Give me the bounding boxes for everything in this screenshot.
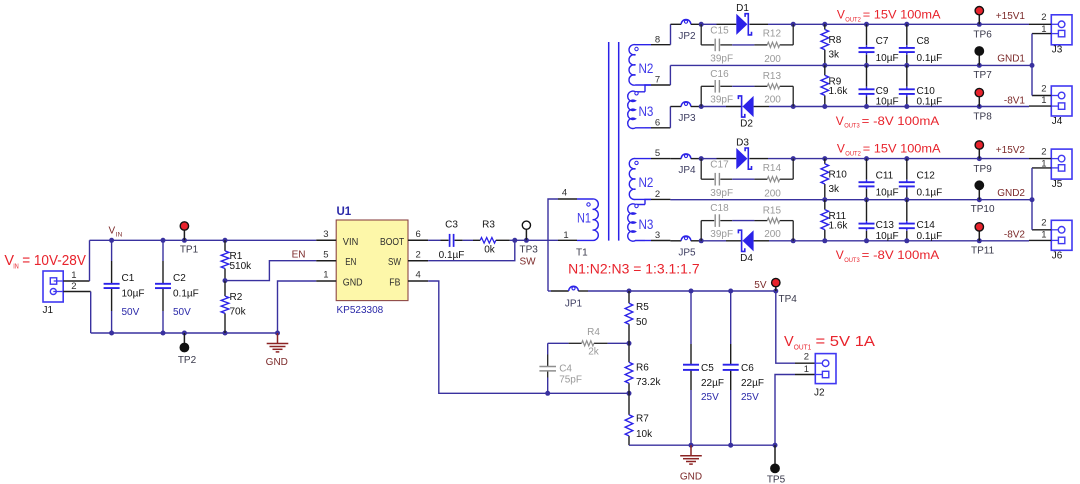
J6 pin 1 lead bbox=[1029, 239, 1051, 241]
svg-text:J6: J6 bbox=[1052, 250, 1063, 261]
junction TP8 bbox=[977, 104, 982, 109]
junction C6 top bbox=[728, 289, 733, 294]
test point TP11 bbox=[978, 231, 980, 241]
svg-text:0.1µF: 0.1µF bbox=[917, 188, 943, 199]
svg-text:OUT3: OUT3 bbox=[844, 257, 860, 264]
svg-text:R13: R13 bbox=[763, 71, 782, 82]
capacitor C6 leads bbox=[730, 291, 732, 344]
junction TP7 bbox=[977, 63, 982, 68]
junction C9 bottom bbox=[864, 104, 869, 109]
svg-text:OUT2: OUT2 bbox=[845, 16, 861, 23]
svg-text:2k: 2k bbox=[588, 346, 600, 357]
junction FB divider bbox=[627, 391, 632, 396]
junction TP9 bbox=[977, 156, 982, 161]
junction snubber left bottom bbox=[699, 104, 704, 109]
capacitor C11 leads bbox=[866, 159, 868, 180]
svg-text:50: 50 bbox=[636, 317, 648, 328]
svg-text:R2: R2 bbox=[230, 292, 243, 303]
svg-text:1: 1 bbox=[323, 270, 328, 281]
svg-text:FB: FB bbox=[389, 276, 400, 288]
svg-text:8: 8 bbox=[655, 34, 660, 45]
svg-text:2: 2 bbox=[804, 352, 809, 363]
svg-text:+15V1: +15V1 bbox=[996, 11, 1026, 22]
T1 winding N2 (bottom) bbox=[629, 159, 651, 200]
svg-text:V: V bbox=[836, 114, 844, 128]
svg-text:GND1: GND1 bbox=[997, 54, 1025, 65]
capacitor C12 leads bbox=[906, 159, 908, 180]
junction C9 mid bbox=[864, 63, 869, 68]
junction TP11 bbox=[977, 238, 982, 243]
junction R9 mid bbox=[822, 63, 827, 68]
capacitor C7 leads bbox=[866, 24, 868, 45]
diode D4 bbox=[743, 230, 754, 251]
J5 pin 1 lead bbox=[1032, 167, 1051, 169]
resistor R5 leads bbox=[628, 291, 630, 303]
svg-text:TP8: TP8 bbox=[973, 111, 992, 122]
wire top rail bbox=[701, 23, 716, 25]
capacitor C14 leads bbox=[906, 200, 908, 221]
resistor R6 bbox=[625, 362, 633, 383]
svg-text:EN: EN bbox=[345, 256, 356, 268]
capacitor C5 bbox=[683, 364, 699, 366]
junction C1 top bbox=[109, 238, 114, 243]
junction C2 bottom bbox=[161, 331, 166, 336]
svg-text:25V: 25V bbox=[741, 392, 759, 403]
capacitor C12 bbox=[899, 181, 915, 183]
wire VIN top rail bbox=[90, 239, 317, 241]
svg-text:3: 3 bbox=[323, 229, 328, 240]
wire top rail bbox=[701, 158, 716, 160]
svg-text:3k: 3k bbox=[829, 184, 841, 195]
svg-text:JP1: JP1 bbox=[565, 299, 583, 310]
wire EN net bbox=[225, 261, 316, 281]
wire 5V rail bbox=[548, 290, 551, 292]
svg-text:N3: N3 bbox=[639, 104, 654, 119]
wire J5 pin1 to GND riser bbox=[1031, 168, 1033, 200]
diode D2 bbox=[743, 96, 754, 117]
svg-text:50V: 50V bbox=[122, 307, 140, 318]
svg-text:R10: R10 bbox=[829, 169, 848, 180]
svg-text:J2: J2 bbox=[814, 388, 825, 399]
junction U1 gnd bbox=[275, 331, 280, 336]
test point TP6 bbox=[978, 15, 980, 25]
J4 pin 1 lead bbox=[1029, 105, 1051, 107]
svg-text:-8V2: -8V2 bbox=[1004, 230, 1026, 241]
test point TP3 bbox=[525, 229, 527, 240]
svg-text:7: 7 bbox=[655, 74, 660, 85]
svg-text:39pF: 39pF bbox=[710, 95, 733, 106]
junction TP4 bbox=[773, 289, 778, 294]
junction C13 mid bbox=[864, 197, 869, 202]
svg-text:200: 200 bbox=[764, 54, 781, 65]
svg-text:2: 2 bbox=[416, 249, 421, 260]
T1 pin 7 lead bbox=[651, 84, 670, 86]
svg-text:VIN: VIN bbox=[343, 236, 359, 248]
capacitor C17 (DNP) bbox=[714, 173, 716, 186]
svg-text:R7: R7 bbox=[636, 414, 649, 425]
svg-text:3: 3 bbox=[655, 230, 660, 241]
svg-text:J4: J4 bbox=[1052, 116, 1063, 127]
junction C5 top bbox=[689, 289, 694, 294]
junction snubber left top bbox=[699, 156, 704, 161]
svg-text:22µF: 22µF bbox=[701, 378, 724, 389]
svg-text:39pF: 39pF bbox=[710, 188, 733, 199]
junction TP6 bbox=[977, 22, 982, 27]
junction R5 top bbox=[627, 289, 632, 294]
svg-text:KP523308: KP523308 bbox=[337, 305, 384, 316]
capacitor C16 (DNP) bbox=[714, 80, 716, 93]
svg-text:0.1µF: 0.1µF bbox=[917, 53, 943, 64]
svg-text:JP5: JP5 bbox=[678, 247, 696, 258]
capacitor C7 bbox=[859, 47, 875, 49]
diode D3 bbox=[736, 148, 747, 169]
wire C3 to R3 bbox=[463, 239, 473, 241]
svg-text:SW: SW bbox=[520, 257, 537, 268]
connector J4 bbox=[1051, 86, 1072, 116]
capacitor C3 leads bbox=[441, 239, 449, 241]
svg-text:1.6k: 1.6k bbox=[829, 220, 849, 231]
svg-text:C12: C12 bbox=[917, 170, 936, 181]
junction TP5 bbox=[773, 443, 778, 448]
resistor R10 bbox=[821, 164, 829, 184]
U1 pin 2 SW stub bbox=[408, 260, 428, 262]
capacitor C2 bbox=[155, 283, 171, 285]
svg-text:C4: C4 bbox=[559, 364, 572, 375]
svg-text:TP6: TP6 bbox=[973, 30, 992, 41]
resistor R9 leads bbox=[824, 65, 826, 75]
resistor R3 bbox=[480, 238, 496, 244]
resistor R9 bbox=[821, 75, 829, 95]
junction GND riser bbox=[1030, 197, 1035, 202]
svg-text:C9: C9 bbox=[876, 86, 889, 97]
U1 pin 6 BOOT stub bbox=[408, 239, 428, 241]
svg-text:6: 6 bbox=[416, 229, 421, 240]
resistor R7 leads bbox=[628, 393, 630, 415]
wire FB net bbox=[428, 281, 629, 393]
svg-text:1: 1 bbox=[1041, 24, 1046, 35]
resistor R4 (DNP) bbox=[582, 341, 594, 346]
diode D1 bbox=[736, 14, 747, 35]
test point TP9 bbox=[978, 149, 980, 159]
wire 5V to J2 pin2 bbox=[776, 291, 795, 363]
junction C10 mid bbox=[904, 63, 909, 68]
wire U1 GND to rail bbox=[278, 281, 317, 333]
svg-text:6: 6 bbox=[655, 117, 660, 128]
junction C1 bottom bbox=[109, 331, 114, 336]
svg-text:39pF: 39pF bbox=[710, 54, 733, 65]
wire pin7 jog up to GND1 rail bbox=[669, 65, 671, 85]
capacitor C9 bbox=[859, 88, 875, 90]
connector J6 bbox=[1051, 220, 1072, 250]
svg-text:C5: C5 bbox=[701, 363, 714, 374]
J4 pin 2 lead bbox=[1032, 95, 1051, 97]
capacitor C8 leads bbox=[906, 24, 908, 45]
capacitor C8 bbox=[899, 47, 915, 49]
resistor R10 leads bbox=[824, 159, 826, 164]
svg-text:TP4: TP4 bbox=[779, 294, 798, 305]
svg-text:V: V bbox=[837, 7, 845, 21]
resistor R8 bbox=[821, 30, 829, 50]
resistor R6 leads bbox=[628, 343, 630, 362]
svg-text:R6: R6 bbox=[636, 363, 649, 374]
snubber loop bottom bbox=[700, 221, 702, 241]
connector J1 bbox=[43, 271, 63, 302]
junction SW node bbox=[512, 238, 517, 243]
svg-text:V: V bbox=[837, 142, 845, 156]
svg-text:1: 1 bbox=[1041, 159, 1046, 170]
junction R10 top bbox=[822, 156, 827, 161]
svg-text:GND: GND bbox=[266, 357, 288, 368]
resistor R12 (DNP) bbox=[767, 42, 779, 47]
transformer T1 primary winding N1 bbox=[577, 199, 598, 240]
resistor R11 bbox=[821, 210, 829, 230]
junction C8 top bbox=[904, 22, 909, 27]
svg-text:0.1µF: 0.1µF bbox=[439, 250, 465, 261]
U1 pin 3 VIN stub bbox=[316, 239, 336, 241]
svg-text:JP2: JP2 bbox=[678, 31, 696, 42]
J5 pin 2 lead bbox=[1029, 158, 1051, 160]
svg-text:T1: T1 bbox=[576, 248, 588, 259]
svg-text:OUT1: OUT1 bbox=[794, 345, 812, 352]
capacitor C6 bbox=[723, 364, 739, 366]
svg-text:4: 4 bbox=[416, 270, 421, 281]
svg-text:V: V bbox=[836, 248, 844, 262]
svg-text:IN: IN bbox=[116, 231, 123, 238]
svg-text:= -8V 100mA: = -8V 100mA bbox=[862, 248, 940, 262]
wire J1 pin2 to bottom rail bbox=[90, 292, 92, 334]
svg-text:IN: IN bbox=[13, 263, 19, 270]
svg-text:R8: R8 bbox=[829, 35, 842, 46]
svg-text:0k: 0k bbox=[484, 244, 496, 255]
resistor R14 (DNP) bbox=[767, 177, 779, 182]
J6 pin 2 lead bbox=[1032, 229, 1051, 231]
junction R4-R5 bbox=[627, 341, 632, 346]
svg-text:4: 4 bbox=[562, 188, 567, 199]
svg-text:1: 1 bbox=[1041, 229, 1046, 240]
svg-text:5V: 5V bbox=[754, 280, 767, 291]
svg-text:N2: N2 bbox=[639, 175, 654, 190]
svg-text:D1: D1 bbox=[736, 3, 749, 14]
wire R4 row left bbox=[548, 342, 569, 344]
junction R1 top bbox=[223, 238, 228, 243]
svg-text:SW: SW bbox=[388, 256, 401, 268]
svg-text:10k: 10k bbox=[636, 429, 653, 440]
wire bottom rail (input gnd) bbox=[91, 332, 278, 334]
J3 pin 1 lead bbox=[1032, 33, 1051, 35]
diode D4 leads bbox=[726, 240, 743, 242]
svg-text:70k: 70k bbox=[230, 306, 247, 317]
wire T1 pin4 to 5V rail bbox=[558, 198, 577, 200]
svg-text:U1: U1 bbox=[337, 206, 352, 218]
capacitor C13 bbox=[859, 223, 875, 225]
svg-text:TP3: TP3 bbox=[520, 245, 539, 256]
T1 winding N3 (top) bbox=[628, 91, 645, 128]
T1 pin 1 lead bbox=[558, 239, 577, 241]
junction C11 top bbox=[864, 156, 869, 161]
wire SW jog bbox=[428, 240, 515, 260]
junction snubber right top bbox=[791, 22, 796, 27]
J2 pin 2 lead bbox=[795, 362, 815, 364]
test point TP2 bbox=[183, 333, 185, 352]
junction C5 bottom bbox=[689, 443, 694, 448]
resistor R2 bbox=[221, 296, 229, 313]
svg-text:C18: C18 bbox=[710, 203, 729, 214]
junction C4 bottom bbox=[545, 391, 550, 396]
svg-text:10µF: 10µF bbox=[876, 97, 899, 108]
junction C14 mid bbox=[904, 197, 909, 202]
svg-text:= 5V 1A: = 5V 1A bbox=[816, 334, 876, 350]
svg-text:0.1µF: 0.1µF bbox=[917, 97, 943, 108]
wire R4 row right bbox=[608, 342, 629, 344]
resistor R11 leads bbox=[824, 200, 826, 210]
svg-text:OUT2: OUT2 bbox=[845, 151, 861, 158]
junction C14 bottom bbox=[904, 238, 909, 243]
wire J6 pin2 to GND riser bbox=[1031, 200, 1033, 230]
svg-text:C2: C2 bbox=[173, 273, 186, 284]
test point TP4 bbox=[775, 287, 777, 291]
capacitor C13 leads bbox=[866, 200, 868, 221]
connector J5 bbox=[1051, 149, 1072, 179]
capacitor C9 leads bbox=[866, 65, 868, 86]
svg-text:+15V2: +15V2 bbox=[996, 145, 1026, 156]
connector J2 bbox=[815, 354, 836, 384]
svg-text:D4: D4 bbox=[740, 253, 753, 264]
wire J4 pin2 to GND riser bbox=[1031, 65, 1033, 95]
junction C10 bottom bbox=[904, 104, 909, 109]
svg-text:2: 2 bbox=[71, 281, 76, 292]
junction C2 top bbox=[161, 238, 166, 243]
resistor R8 leads bbox=[824, 24, 826, 29]
junction R8 top bbox=[822, 22, 827, 27]
junction C7 top bbox=[864, 22, 869, 27]
svg-text:TP5: TP5 bbox=[767, 475, 786, 484]
junction snubber right top bbox=[791, 156, 796, 161]
capacitor C1 bbox=[104, 283, 120, 285]
svg-text:V: V bbox=[109, 226, 116, 237]
svg-text:200: 200 bbox=[764, 229, 781, 240]
svg-text:5: 5 bbox=[323, 249, 328, 260]
svg-text:1: 1 bbox=[563, 230, 568, 241]
svg-text:C1: C1 bbox=[122, 273, 135, 284]
wire R3 to SW node bbox=[510, 239, 515, 241]
svg-text:1: 1 bbox=[71, 270, 76, 281]
svg-text:2: 2 bbox=[1041, 83, 1046, 94]
T1 pin 6 lead bbox=[651, 127, 670, 129]
svg-text:N2: N2 bbox=[639, 61, 654, 76]
N1 polarity dot bbox=[587, 203, 590, 206]
op-amp U1 body bbox=[336, 220, 408, 301]
junction R1-R2 (EN) bbox=[223, 278, 228, 283]
junction TP3 bbox=[524, 238, 529, 243]
svg-text:R4: R4 bbox=[587, 327, 600, 338]
junction snubber left top bbox=[699, 22, 704, 27]
jumper JP4 bbox=[671, 158, 682, 160]
svg-text:N3: N3 bbox=[639, 217, 654, 232]
svg-text:TP7: TP7 bbox=[973, 70, 992, 81]
svg-text:GND2: GND2 bbox=[997, 188, 1025, 199]
svg-text:510k: 510k bbox=[230, 261, 253, 272]
diode D2 leads bbox=[726, 106, 743, 108]
diode D3 leads bbox=[717, 158, 737, 160]
junction TP10 bbox=[977, 197, 982, 202]
wire bottom GND rail bbox=[629, 444, 775, 446]
J2 pin 1 lead bbox=[795, 374, 815, 376]
svg-text:J1: J1 bbox=[43, 305, 54, 316]
svg-text:TP10: TP10 bbox=[971, 204, 995, 215]
T1 winding N3 (bottom) bbox=[628, 204, 645, 241]
svg-text:V: V bbox=[784, 334, 794, 350]
junction snubber right bottom bbox=[791, 104, 796, 109]
resistor R15 (DNP) bbox=[767, 218, 779, 223]
resistor R2 leads bbox=[224, 281, 226, 297]
svg-text:2: 2 bbox=[1041, 218, 1046, 229]
svg-text:D2: D2 bbox=[740, 119, 753, 130]
resistor R7 bbox=[625, 415, 633, 436]
svg-text:= -8V 100mA: = -8V 100mA bbox=[862, 114, 940, 128]
wire mid rail bbox=[670, 64, 1032, 66]
wire TP3 to T1 pin1 bbox=[526, 239, 558, 241]
svg-text:J3: J3 bbox=[1052, 45, 1063, 56]
snubber loop top bbox=[700, 159, 702, 180]
svg-text:TP11: TP11 bbox=[971, 246, 995, 257]
svg-text:C14: C14 bbox=[917, 220, 936, 231]
capacitor C5 leads bbox=[690, 291, 692, 344]
wire pin8 jog up bbox=[670, 24, 672, 44]
resistor R5 bbox=[625, 303, 633, 324]
svg-text:1: 1 bbox=[804, 364, 809, 375]
capacitor C4 (DNP) bbox=[539, 366, 556, 368]
jumper JP3 bbox=[670, 106, 681, 108]
connector J3 bbox=[1051, 15, 1072, 45]
junction GND riser bbox=[1030, 63, 1035, 68]
svg-text:C10: C10 bbox=[917, 86, 936, 97]
svg-text:200: 200 bbox=[764, 95, 781, 106]
svg-text:R15: R15 bbox=[763, 205, 782, 216]
svg-text:TP2: TP2 bbox=[178, 355, 197, 366]
svg-text:C8: C8 bbox=[917, 36, 930, 47]
svg-text:10µF: 10µF bbox=[122, 289, 145, 300]
junction snubber right bottom bbox=[791, 238, 796, 243]
capacitor C10 bbox=[899, 88, 915, 90]
wire SW node to TP3 bbox=[515, 239, 527, 241]
wire J2 pin1 to GND rail bbox=[775, 375, 795, 446]
svg-text:10µF: 10µF bbox=[876, 231, 899, 242]
J1 pin 2 lead bbox=[63, 291, 90, 293]
capacitor C15 (DNP) bbox=[714, 39, 716, 52]
capacitor C18 (DNP) bbox=[714, 214, 716, 227]
svg-text:GND: GND bbox=[680, 472, 702, 483]
junction R2 bottom bbox=[223, 331, 228, 336]
T1 winding N2 (top) bbox=[629, 45, 651, 86]
svg-text:GND: GND bbox=[343, 276, 363, 288]
U1 pin 4 FB stub bbox=[408, 280, 428, 282]
svg-text:C13: C13 bbox=[876, 220, 895, 231]
transformer core bbox=[608, 42, 610, 241]
test point TP5 bbox=[774, 445, 776, 472]
capacitor C2 leads bbox=[162, 240, 164, 261]
wire bottom rail bbox=[701, 106, 726, 108]
svg-text:1: 1 bbox=[1041, 95, 1046, 106]
svg-text:10µF: 10µF bbox=[876, 188, 899, 199]
wire bottom rail bbox=[701, 240, 726, 242]
N2b polarity dot bbox=[635, 161, 638, 164]
N3b polarity dot bbox=[635, 204, 638, 207]
svg-text:C17: C17 bbox=[710, 160, 729, 171]
svg-text:C11: C11 bbox=[876, 170, 894, 181]
svg-text:1.6k: 1.6k bbox=[829, 86, 849, 97]
svg-text:22µF: 22µF bbox=[741, 378, 764, 389]
svg-text:R14: R14 bbox=[763, 163, 782, 174]
